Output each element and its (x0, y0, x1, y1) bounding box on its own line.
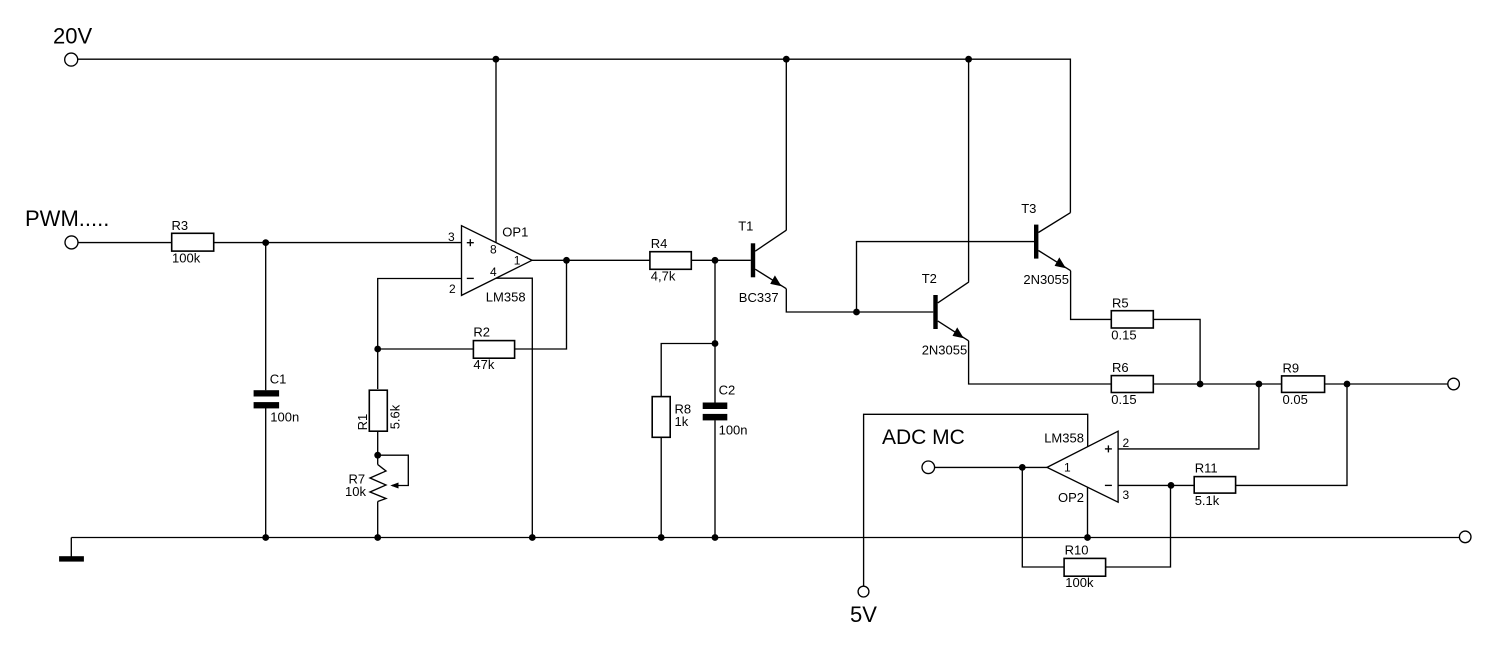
capacitor C2 (703, 383, 748, 438)
svg-text:2: 2 (1123, 436, 1130, 450)
svg-text:100k: 100k (1065, 575, 1094, 590)
wire R1 to R7 (377, 431, 379, 464)
wire R5 right (1153, 319, 1200, 384)
op-amp OP2 (1044, 431, 1129, 505)
resistor R6 (1111, 360, 1153, 407)
node R1-R7 junction (374, 452, 381, 459)
wire R4 to T1 base (691, 259, 751, 261)
wire C2 bottom (714, 420, 716, 537)
svg-text:10k: 10k (345, 484, 366, 499)
svg-text:R11: R11 (1195, 460, 1218, 475)
wire top rail 20V (78, 59, 1071, 213)
node R4-T1 junction (712, 257, 719, 264)
wire R7 bottom to ground (377, 502, 379, 538)
svg-text:2N3055: 2N3055 (1023, 272, 1069, 287)
wire T1 collector (785, 59, 787, 230)
wire PWM to R3 (78, 242, 172, 244)
wire OP2 ground pin (1087, 487, 1089, 537)
terminal 5V (850, 586, 877, 627)
svg-text:3: 3 (448, 230, 455, 244)
wire ground stub (70, 538, 72, 557)
wire R10 right (1106, 485, 1171, 567)
resistor R8 (652, 397, 691, 438)
wire R11 right up (1236, 384, 1347, 485)
svg-text:R1: R1 (355, 414, 370, 431)
node ground R8 (658, 534, 665, 541)
node ground C1 (262, 534, 269, 541)
node rail T2 collector (965, 56, 972, 63)
svg-text:LM358: LM358 (1044, 431, 1084, 446)
svg-text:0.15: 0.15 (1111, 327, 1136, 342)
wire OP2 minus input (1118, 484, 1171, 486)
svg-text:5.1k: 5.1k (1195, 493, 1220, 508)
wire R6 right to output (1153, 383, 1200, 385)
svg-text:100k: 100k (172, 250, 201, 265)
wire R7 wiper (378, 455, 409, 485)
resistor R10 (1064, 543, 1106, 590)
svg-text:1k: 1k (675, 414, 689, 429)
svg-text:PWM.....: PWM..... (25, 206, 109, 231)
op-amp OP1 (448, 224, 532, 304)
node plus input junction (1256, 381, 1263, 388)
svg-text:ADC MC: ADC MC (882, 426, 965, 449)
wire T3 emitter to R5 (1071, 271, 1112, 320)
node ground OP2 (1084, 534, 1091, 541)
svg-text:LM358: LM358 (486, 289, 526, 304)
terminal ADC MC (922, 461, 935, 474)
terminal output top right (1448, 378, 1460, 390)
wire T1 emitter to T2 base (786, 289, 933, 312)
resistor R1 (355, 390, 402, 431)
svg-text:2: 2 (449, 282, 456, 296)
wire T2 collector (968, 59, 970, 282)
svg-text:2N3055: 2N3055 (922, 343, 968, 358)
ADC MC box (864, 414, 1088, 586)
node R5-R6 junction (1197, 381, 1204, 388)
svg-text:BC337: BC337 (739, 290, 779, 305)
svg-text:8: 8 (490, 243, 497, 257)
node ground OP1 pin4 (529, 534, 536, 541)
svg-text:R9: R9 (1283, 361, 1300, 376)
resistor R2 (473, 325, 514, 372)
wire OP2 plus input (1118, 384, 1259, 449)
wire R3 to OP1 pin3 (214, 242, 462, 244)
node ground R7 (374, 534, 381, 541)
svg-text:20V: 20V (53, 24, 92, 49)
ground (59, 556, 84, 561)
node rail T1 collector (783, 56, 790, 63)
terminal PWM (25, 206, 109, 249)
wire output line (1200, 383, 1282, 385)
wire OP1 output to R4 (532, 259, 650, 261)
node OP1 output junction (563, 257, 570, 264)
wire OP2 output (935, 466, 1047, 468)
svg-text:4,7k: 4,7k (651, 268, 676, 283)
wire ground rail (71, 537, 1459, 539)
svg-text:R6: R6 (1112, 360, 1129, 375)
svg-text:C1: C1 (270, 372, 287, 387)
transistor T1 (738, 219, 786, 306)
svg-text:5V: 5V (850, 602, 877, 627)
svg-text:4: 4 (490, 265, 497, 279)
wire R8 bottom (660, 437, 662, 537)
potentiometer R7 (345, 465, 399, 502)
resistor R4 (650, 236, 691, 283)
svg-text:1: 1 (1064, 460, 1071, 474)
wire R2 left to node (378, 348, 474, 350)
resistor R5 (1111, 295, 1153, 342)
svg-text:5.6k: 5.6k (387, 404, 402, 429)
terminal ground right (1459, 531, 1471, 543)
wire feedback down (515, 260, 567, 349)
wire OP1 pin4 to ground (496, 278, 532, 537)
node pin2-R2-R1 junction (374, 346, 381, 353)
svg-text:47k: 47k (473, 357, 494, 372)
wire R11 left (1171, 484, 1194, 486)
wire OP1 pin2 (378, 279, 462, 390)
node minus-R11-R10 junction (1168, 482, 1175, 489)
node R3-C1 junction (262, 239, 269, 246)
transistor T2 (922, 271, 969, 358)
capacitor C1 (254, 372, 300, 425)
svg-text:T3: T3 (1021, 201, 1036, 216)
wire OP1 pin8 power (495, 59, 497, 242)
label ADC MC (882, 426, 965, 449)
svg-text:100n: 100n (719, 423, 748, 438)
svg-text:OP2: OP2 (1058, 490, 1084, 505)
node R9-R11 junction (1344, 381, 1351, 388)
svg-text:R3: R3 (172, 218, 189, 233)
wire node715 down C2 (714, 260, 716, 402)
wire R9 right to terminal (1325, 383, 1448, 385)
wire R8 branch (661, 344, 715, 397)
wire C1 bottom (265, 408, 267, 538)
resistor R11 (1194, 460, 1235, 508)
wire R10 left (1022, 467, 1064, 567)
svg-text:T2: T2 (922, 271, 937, 286)
svg-text:T1: T1 (738, 219, 753, 234)
svg-text:C2: C2 (719, 383, 736, 398)
svg-text:100n: 100n (270, 410, 299, 425)
node rail OP1 power (493, 56, 500, 63)
svg-text:3: 3 (1123, 488, 1130, 502)
wire T2 emitter to R6 (969, 341, 1112, 384)
node ground C2 (712, 534, 719, 541)
svg-text:R10: R10 (1065, 543, 1089, 558)
node OP2 output junction (1019, 464, 1026, 471)
node C2-R8 junction (712, 340, 719, 347)
svg-text:1: 1 (514, 254, 521, 268)
resistor R3 (172, 218, 214, 266)
transistor T3 (1021, 201, 1070, 287)
svg-text:0.05: 0.05 (1283, 392, 1308, 407)
svg-text:0.15: 0.15 (1111, 392, 1136, 407)
terminal 20V (53, 24, 92, 67)
wire C1 top (265, 243, 267, 391)
svg-text:R2: R2 (473, 325, 490, 340)
svg-text:OP1: OP1 (502, 224, 528, 239)
svg-text:R4: R4 (651, 236, 668, 251)
node T1 emitter junction (853, 309, 860, 316)
svg-text:R5: R5 (1112, 295, 1129, 310)
wire T3 base (857, 242, 1035, 312)
resistor R9 (1282, 361, 1325, 407)
